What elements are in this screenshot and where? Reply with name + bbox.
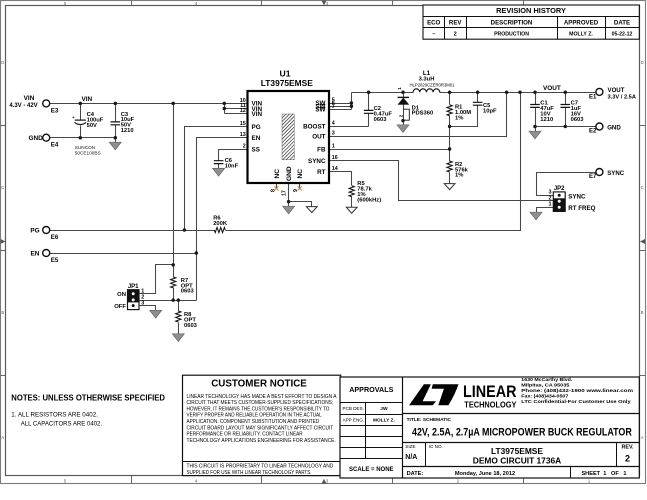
svg-text:1: 1 [141, 288, 144, 294]
svg-text:12: 12 [240, 108, 246, 114]
svg-text:Milpitas, CA 95035: Milpitas, CA 95035 [521, 383, 569, 389]
svg-text:N/A: N/A [405, 454, 417, 461]
svg-text:VOUT: VOUT [543, 85, 561, 92]
svg-text:1: 1 [332, 143, 335, 149]
svg-text:3: 3 [141, 300, 144, 306]
svg-text:1: 1 [549, 201, 552, 207]
svg-text:0603: 0603 [181, 289, 195, 295]
svg-text:PG: PG [30, 228, 39, 235]
svg-text:GND: GND [28, 135, 43, 142]
svg-text:VERIFY PROPER AND RELIABLE OPE: VERIFY PROPER AND RELIABLE OPERATION IN … [187, 413, 322, 419]
svg-text:ALL CAPACITORS ARE 0402.: ALL CAPACITORS ARE 0402. [21, 421, 103, 428]
svg-text:3: 3 [549, 189, 552, 195]
svg-text:ON: ON [117, 292, 126, 298]
svg-text:1%: 1% [455, 115, 463, 121]
svg-text:TECHNOLOGY: TECHNOLOGY [464, 399, 516, 409]
svg-text:05-22-12: 05-22-12 [612, 31, 633, 37]
svg-text:(600kHz): (600kHz) [357, 197, 381, 203]
svg-text:DATE:: DATE: [407, 471, 424, 477]
svg-text:3: 3 [332, 130, 335, 136]
svg-text:E4: E4 [51, 142, 59, 149]
svg-text:PG: PG [252, 124, 261, 131]
svg-text:42V, 2.5A, 2.7µA MICROPOWER BU: 42V, 2.5A, 2.7µA MICROPOWER BUCK REGULAT… [412, 426, 632, 438]
svg-text:10pF: 10pF [483, 108, 497, 114]
svg-text:E2: E2 [589, 128, 597, 134]
svg-text:HOWEVER, IT REMAINS THE CUSTOM: HOWEVER, IT REMAINS THE CUSTOMER'S RESPO… [187, 406, 330, 412]
svg-text:4: 4 [332, 120, 335, 126]
svg-text:LT3975EMSE: LT3975EMSE [491, 446, 543, 456]
svg-text:SHEET 1 OF 1: SHEET 1 OF 1 [581, 471, 626, 477]
svg-text:2: 2 [625, 453, 630, 463]
svg-text:2: 2 [454, 32, 457, 38]
svg-text:0603: 0603 [374, 117, 388, 123]
svg-text:B: B [641, 310, 644, 315]
svg-text:VOUT: VOUT [608, 87, 625, 94]
svg-text:SUNCON: SUNCON [75, 145, 95, 150]
svg-text:OUT: OUT [312, 133, 325, 140]
svg-text:LT3975EMSE: LT3975EMSE [261, 78, 313, 88]
svg-text:50CE100BS: 50CE100BS [75, 151, 101, 156]
svg-text:CUSTOMER NOTICE: CUSTOMER NOTICE [211, 378, 307, 389]
svg-text:Monday, June 18, 2012: Monday, June 18, 2012 [455, 471, 515, 477]
svg-text:LINEAR TECHNOLOGY HAS MADE A B: LINEAR TECHNOLOGY HAS MADE A BEST EFFORT… [187, 394, 337, 400]
svg-text:A: A [1, 435, 4, 440]
svg-text:FB: FB [317, 146, 326, 153]
svg-text:APP ENG.: APP ENG. [343, 418, 365, 423]
svg-text:SYNC: SYNC [607, 170, 625, 177]
svg-text:2: 2 [243, 143, 246, 149]
svg-text:JW: JW [380, 406, 388, 412]
svg-text:ECO: ECO [427, 20, 440, 27]
svg-text:1210: 1210 [121, 128, 134, 134]
svg-text:Phone: (408)432-1900 www.lin: Phone: (408)432-1900 www.linear.com [521, 388, 634, 394]
svg-text:CIRCUIT THAT MEETS CUSTOMER-SU: CIRCUIT THAT MEETS CUSTOMER-SUPPLIED SPE… [187, 400, 334, 406]
svg-text:1630 McCarthy Blvd.: 1630 McCarthy Blvd. [521, 377, 573, 383]
svg-text:RT: RT [317, 169, 326, 176]
svg-text:+: + [72, 115, 75, 121]
svg-text:DATE: DATE [614, 20, 630, 27]
svg-text:0603: 0603 [571, 117, 585, 123]
svg-text:SCALE = NONE: SCALE = NONE [349, 467, 394, 473]
svg-text:SIZE: SIZE [405, 444, 415, 449]
svg-text:MOLLY Z.: MOLLY Z. [569, 31, 593, 37]
svg-text:0603: 0603 [184, 323, 198, 329]
svg-text:E6: E6 [51, 234, 59, 241]
svg-text:REV.: REV. [621, 444, 634, 450]
svg-text:APPROVED: APPROVED [564, 20, 599, 27]
svg-text:A: A [641, 435, 644, 440]
svg-text:SW: SW [315, 107, 325, 114]
svg-text:3.3V / 2.5A: 3.3V / 2.5A [608, 94, 636, 100]
svg-text:RT FREQ: RT FREQ [568, 205, 595, 212]
svg-text:E5: E5 [51, 257, 59, 264]
svg-text:SS: SS [252, 146, 260, 153]
svg-text:EN: EN [31, 251, 40, 258]
svg-text:–: – [432, 32, 435, 38]
svg-text:DESCRIPTION: DESCRIPTION [491, 20, 533, 27]
svg-text:D: D [641, 60, 644, 65]
svg-text:10nF: 10nF [225, 163, 239, 169]
svg-text:IC NO.: IC NO. [429, 444, 443, 449]
svg-text:TECHNOLOGY APPLICATIONS ENGINE: TECHNOLOGY APPLICATIONS ENGINEERING FOR … [187, 438, 336, 444]
svg-text:E3: E3 [51, 107, 59, 114]
svg-text:APPLICATION. COMPONENT SUBSTI: APPLICATION. COMPONENT SUBSTITUTION AND … [187, 419, 320, 425]
svg-text:15: 15 [240, 121, 246, 127]
svg-text:TITLE: SCHEMATIC: TITLE: SCHEMATIC [407, 417, 452, 423]
svg-text:THIS CIRCUIT IS PROPRIETARY TO: THIS CIRCUIT IS PROPRIETARY TO LINEAR TE… [187, 463, 334, 469]
svg-text:PDS360: PDS360 [412, 111, 434, 117]
svg-text:50V: 50V [87, 123, 97, 129]
svg-text:LTC Confidential-For Customer: LTC Confidential-For Customer Use Only [521, 399, 631, 405]
svg-text:VIN: VIN [252, 111, 263, 118]
svg-text:14: 14 [332, 166, 338, 172]
svg-text:E7: E7 [589, 174, 597, 180]
svg-text:MOLLY Z.: MOLLY Z. [373, 418, 395, 424]
svg-text:16: 16 [332, 155, 338, 161]
svg-text:JP1: JP1 [128, 284, 139, 290]
svg-text:PRODUCTION: PRODUCTION [494, 31, 529, 37]
svg-text:200K: 200K [213, 221, 228, 227]
svg-text:NOTES: UNLESS OTHERWISE SPECI: NOTES: UNLESS OTHERWISE SPECIFIED [11, 393, 165, 402]
svg-text:PCB DES.: PCB DES. [343, 406, 364, 411]
svg-text:DEMO CIRCUIT 1736A: DEMO CIRCUIT 1736A [473, 456, 561, 466]
svg-text:7: 7 [332, 104, 335, 110]
svg-text:B: B [1, 310, 4, 315]
svg-text:Fax: (408)434-0507: Fax: (408)434-0507 [521, 394, 568, 400]
svg-text:1%: 1% [455, 173, 463, 179]
svg-text:U1: U1 [280, 68, 291, 78]
svg-text:HLP2020CZER0R3M01: HLP2020CZER0R3M01 [410, 82, 455, 87]
svg-text:JP2: JP2 [554, 186, 565, 192]
svg-text:SYNC: SYNC [308, 158, 326, 165]
svg-text:17: 17 [282, 190, 288, 196]
svg-text:1210: 1210 [540, 117, 553, 123]
svg-text:SYNC: SYNC [568, 194, 586, 201]
svg-text:REVISION HISTORY: REVISION HISTORY [496, 6, 566, 15]
svg-text:BOOST: BOOST [303, 123, 326, 130]
svg-text:GND: GND [286, 166, 293, 181]
svg-text:VIN: VIN [82, 96, 93, 103]
svg-text:VIN: VIN [24, 95, 35, 102]
svg-text:4.3V - 42V: 4.3V - 42V [9, 103, 37, 109]
svg-text:GND: GND [607, 124, 621, 131]
svg-text:NC: NC [274, 169, 281, 179]
svg-text:E1: E1 [589, 94, 597, 100]
svg-text:REV: REV [449, 20, 462, 27]
svg-text:EN: EN [252, 135, 261, 142]
svg-text:SUPPLIED FOR USE WITH LINEAR T: SUPPLIED FOR USE WITH LINEAR TECHNOLOGY … [187, 470, 312, 476]
svg-text:CIRCUIT BOARD LAYOUT MAY SIGNI: CIRCUIT BOARD LAYOUT MAY SIGNIFICANTLY A… [187, 425, 334, 431]
svg-text:OFF: OFF [114, 304, 126, 310]
svg-text:C: C [1, 185, 4, 190]
svg-text:13: 13 [240, 132, 246, 138]
svg-text:APPROVALS: APPROVALS [349, 385, 393, 394]
svg-text:PERFORMANCE OR RELIABILITY. C: PERFORMANCE OR RELIABILITY. CONTACT LINE… [187, 432, 303, 438]
svg-text:NC: NC [297, 169, 304, 179]
svg-text:D: D [1, 60, 4, 65]
svg-text:1. ALL RESISTORS ARE 0402.: 1. ALL RESISTORS ARE 0402. [11, 411, 98, 418]
svg-text:C: C [641, 185, 644, 190]
